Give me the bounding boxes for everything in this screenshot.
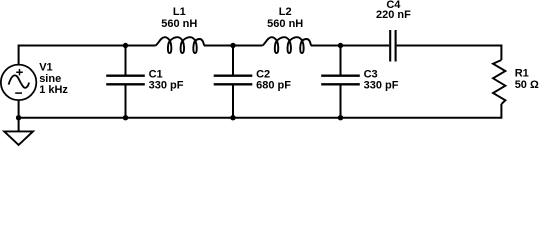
capacitor C1 xyxy=(106,46,145,118)
capacitor C3 xyxy=(321,46,360,118)
svg-text:330 pF: 330 pF xyxy=(364,79,399,91)
V1 minus sign xyxy=(15,92,22,94)
capacitor C2 xyxy=(214,46,253,118)
V1 plus sign xyxy=(16,69,23,75)
node dot top C2 xyxy=(230,43,235,48)
svg-text:L2: L2 xyxy=(279,6,292,18)
wire C2 top lead xyxy=(232,46,234,75)
wire top rail segment D (C4 to R1 top) xyxy=(397,46,502,61)
wire ground lead xyxy=(18,118,20,132)
node dot bottom C1 xyxy=(123,115,128,120)
wire top rail segment A (source to L1) xyxy=(19,46,156,65)
svg-text:R1: R1 xyxy=(515,68,529,80)
wire C1 top lead xyxy=(125,46,127,75)
wire C3 top lead xyxy=(340,46,342,75)
wire top rail segment B (L1 to L2) xyxy=(204,45,262,47)
svg-text:L1: L1 xyxy=(173,6,186,18)
node dot top C1 xyxy=(123,43,128,48)
node dot bottom C3 xyxy=(338,115,343,120)
capacitor C3 plates xyxy=(321,76,360,85)
resistor R1 zigzag xyxy=(493,60,505,104)
wire C3 bottom lead xyxy=(340,85,342,117)
svg-text:220 nF: 220 nF xyxy=(376,9,411,21)
node dot top C3 xyxy=(338,43,343,48)
voltage source V1 circle xyxy=(1,65,37,101)
ground xyxy=(4,131,33,145)
svg-text:1 kHz: 1 kHz xyxy=(39,84,68,96)
capacitor C2 plates xyxy=(214,76,253,85)
wire bottom rail xyxy=(19,100,502,118)
svg-text:330 pF: 330 pF xyxy=(149,79,184,91)
svg-text:560 nH: 560 nH xyxy=(161,18,197,30)
capacitor C4 (series) xyxy=(390,30,395,62)
node dot bottom C2 xyxy=(230,115,235,120)
node dot bottom source xyxy=(16,115,21,120)
wire C1 bottom lead xyxy=(125,85,127,117)
capacitor C1 plates xyxy=(106,76,145,85)
svg-text:680 pF: 680 pF xyxy=(256,79,291,91)
inductor L2 xyxy=(262,37,311,53)
V1 sine wave xyxy=(9,75,29,87)
inductor L1 xyxy=(155,37,204,53)
wire top rail segment C (L2 to C4) xyxy=(311,45,389,47)
wire C2 bottom lead xyxy=(232,85,234,117)
svg-text:V1: V1 xyxy=(39,62,52,74)
svg-text:560 nH: 560 nH xyxy=(267,18,303,30)
svg-text:50 Ω: 50 Ω xyxy=(515,79,539,91)
